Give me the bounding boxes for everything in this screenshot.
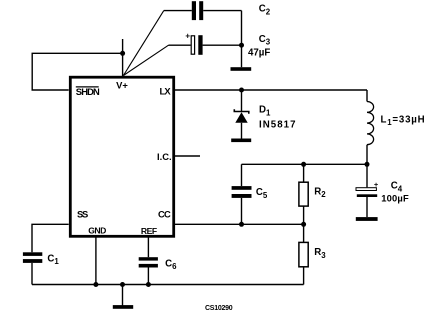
wire SS to C1	[32, 224, 69, 252]
inductor L1	[367, 90, 425, 164]
node D1 top	[239, 88, 244, 93]
svg-text:V+: V+	[116, 80, 128, 91]
node C6 bottom	[146, 282, 151, 287]
pin SS	[77, 208, 88, 219]
ground (D1)	[231, 139, 251, 143]
capacitor C5	[232, 164, 268, 224]
capacitor C3	[169, 32, 271, 59]
pin GND	[88, 226, 106, 236]
wire bottom rail	[32, 284, 304, 286]
capacitor C6	[139, 257, 177, 284]
resistor R3	[299, 224, 326, 284]
pin V+	[116, 80, 128, 91]
wire CC line	[174, 223, 304, 225]
pin CC	[158, 208, 171, 219]
svg-text:SS: SS	[77, 208, 88, 219]
wire SHDN loop	[32, 53, 122, 90]
wire C2/C3 right vertical	[241, 11, 243, 68]
node GND rail	[93, 282, 98, 287]
svg-text:47µF: 47µF	[248, 47, 270, 58]
svg-text:I.C.: I.C.	[157, 151, 172, 162]
wire V+ to C3 diagonal	[123, 45, 168, 75]
wire V+ to C2 diagonal	[123, 11, 163, 76]
node ground stub	[120, 282, 125, 287]
wire GND pin down	[95, 237, 97, 285]
svg-text:CS10290: CS10290	[205, 305, 233, 312]
svg-text:IN5817: IN5817	[259, 120, 297, 131]
node C5 bottom	[239, 222, 244, 227]
resistor R2	[299, 164, 326, 224]
pin LX	[160, 86, 172, 97]
pin I.C.	[157, 151, 172, 162]
svg-text:CC: CC	[158, 208, 171, 219]
node R2 top	[301, 162, 306, 167]
node R2 bottom	[301, 222, 306, 227]
wire V+ stub	[122, 39, 124, 76]
wire mid line (C5/R2/L1)	[242, 163, 368, 165]
ground (bottom rail)	[113, 285, 133, 309]
wire I.C. stub	[174, 155, 200, 157]
IC U1 (regulator)	[70, 77, 173, 236]
ground (C4)	[356, 217, 378, 221]
svg-text:100µF: 100µF	[381, 192, 409, 203]
diode D1	[234, 90, 296, 139]
wire REF pin down	[147, 237, 149, 258]
capacitor C4	[356, 164, 409, 217]
capacitor C2	[164, 1, 271, 20]
pin REF	[141, 226, 157, 236]
ground (C3)	[231, 67, 252, 71]
wire LX line	[174, 89, 367, 91]
svg-text:+: +	[185, 32, 190, 41]
svg-text:SHDN: SHDN	[76, 86, 100, 97]
node L1 bottom	[365, 162, 370, 167]
node V+ junction	[120, 51, 125, 56]
capacitor C1	[23, 252, 60, 284]
label CS10290	[205, 305, 233, 312]
node C3 junction	[239, 43, 244, 48]
svg-text:REF: REF	[141, 226, 157, 236]
pin SHDN	[76, 86, 100, 97]
svg-text:GND: GND	[88, 226, 106, 236]
svg-text:LX: LX	[160, 86, 172, 97]
